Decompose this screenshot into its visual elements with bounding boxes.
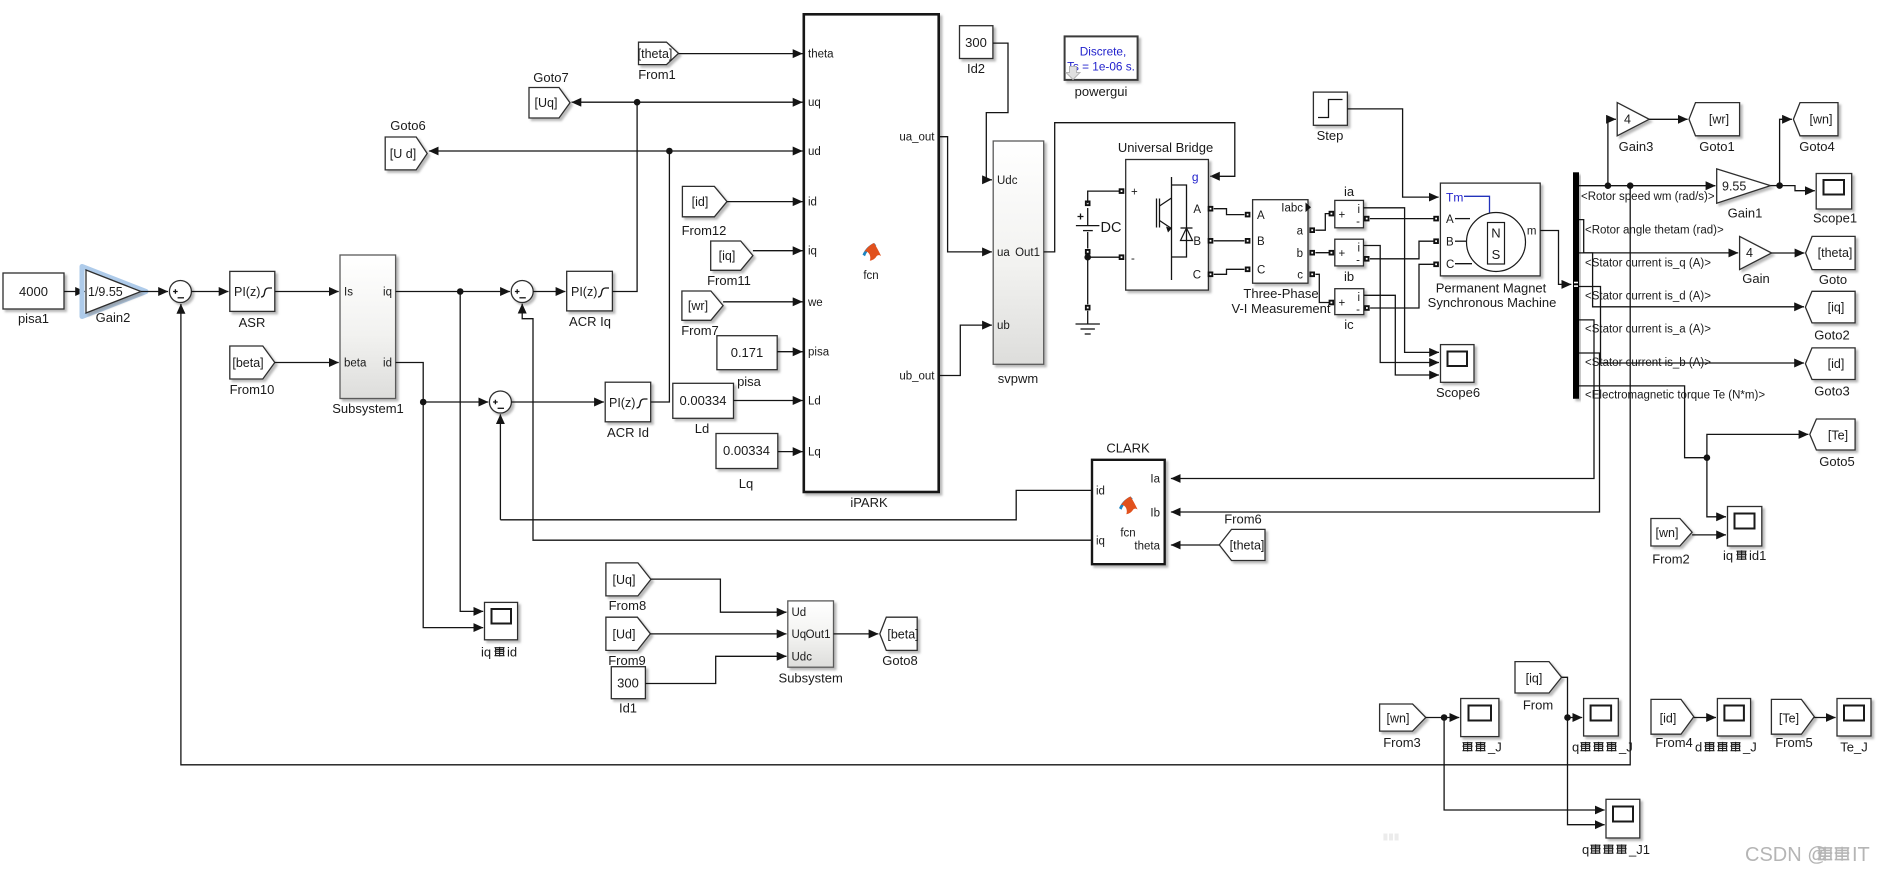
svg-text:300: 300: [617, 676, 639, 691]
goto Goto1 [wr]: [1689, 103, 1740, 154]
svg-text:Step: Step: [1317, 128, 1344, 143]
wire From9 to Subsystem Uq: [650, 633, 786, 635]
block ACR Iq PI(z): [567, 271, 613, 329]
svg-text:[wn]: [wn]: [1810, 113, 1833, 127]
wire torque down to scope iq和id1 input1: [1707, 458, 1726, 517]
svg-text:Ld: Ld: [808, 396, 821, 408]
wire From2 to scope iq和id1 input2: [1692, 534, 1726, 536]
svg-text:S: S: [1492, 247, 1501, 262]
node junction wn: [1441, 714, 1448, 721]
from From11 [iq]: [707, 241, 753, 288]
current measurement ia: [1335, 184, 1364, 228]
wire From1 to iPARK theta: [679, 53, 803, 55]
svg-text:beta: beta: [344, 358, 367, 370]
wire Subsystem1 id output to Sum3: [396, 363, 489, 403]
wire ACR Id output up to ud line: [651, 151, 670, 402]
svg-text:-: -: [1356, 255, 1360, 267]
svg-text:q: q: [1572, 740, 1579, 755]
svg-text:id: id: [1096, 486, 1105, 498]
svg-text:[theta]: [theta]: [1230, 539, 1265, 553]
svg-text:From9: From9: [608, 653, 646, 668]
sum Sum3 (id error): [489, 391, 511, 413]
wire From12 to iPARK id: [727, 201, 803, 203]
svg-text:Out1: Out1: [1015, 247, 1040, 259]
svg-text:ud: ud: [808, 146, 821, 158]
svg-text:a: a: [1297, 226, 1304, 238]
wire From7 to iPARK we: [723, 301, 802, 303]
wire bus out7 torque Te: [1579, 386, 1707, 458]
svg-text:+: +: [1339, 210, 1346, 222]
svg-text:Ld: Ld: [695, 421, 709, 436]
svg-text:C: C: [1193, 270, 1201, 282]
svg-text:ASR: ASR: [239, 315, 266, 330]
svg-text:-: -: [1131, 253, 1135, 265]
svg-text:[wr]: [wr]: [688, 299, 708, 313]
from From10 [beta]: [230, 346, 275, 397]
svg-text:<Rotor angle thetam (rad)>: <Rotor angle thetam (rad)>: [1585, 225, 1724, 237]
svg-text:From11: From11: [707, 273, 751, 288]
wire uq line to iPARK uq port: [637, 101, 802, 103]
scope q轴电流_J1: [1582, 799, 1650, 857]
node junction iq bottom: [1564, 714, 1571, 721]
svg-text:ib: ib: [1344, 269, 1354, 284]
svg-text:A: A: [1257, 210, 1265, 222]
wire bus out5 is_a down to CLARK Ia: [1171, 320, 1594, 479]
svg-text:ub: ub: [997, 320, 1010, 332]
svg-text:fcn: fcn: [1120, 528, 1135, 540]
wire ib i to Scope6 input2: [1364, 246, 1440, 363]
svg-text:[Ud]: [Ud]: [613, 628, 636, 642]
wire bus out6 is_b down to CLARK Ib: [1171, 353, 1600, 512]
svg-text:C: C: [1446, 259, 1454, 271]
svg-text:fcn: fcn: [863, 270, 878, 282]
svg-text:[Te]: [Te]: [1779, 712, 1799, 726]
svg-text:[Uq]: [Uq]: [535, 96, 558, 110]
svg-text:+: +: [1339, 298, 1346, 310]
svg-text:iq: iq: [1723, 548, 1733, 563]
wire Ld to iPARK Ld: [734, 400, 803, 402]
wire Sum1 to ASR: [191, 291, 228, 293]
svg-text:Universal Bridge: Universal Bridge: [1118, 140, 1213, 155]
svg-text:id: id: [507, 645, 517, 660]
svg-text:Goto3: Goto3: [1814, 384, 1849, 399]
svg-text:[wr]: [wr]: [1709, 113, 1729, 127]
from From2 [wn]: [1651, 519, 1692, 567]
svg-text:i: i: [1357, 243, 1360, 255]
wire ic i to Scope6 input3: [1364, 295, 1439, 375]
svg-text:Is: Is: [344, 287, 353, 299]
svg-text:From: From: [1523, 698, 1553, 713]
svg-text:B: B: [1193, 236, 1201, 248]
svg-text:ia: ia: [1344, 184, 1355, 199]
svg-text:ACR Iq: ACR Iq: [569, 314, 611, 329]
current measurement ic: [1335, 289, 1364, 332]
from From3 [wn]: [1380, 704, 1426, 750]
svg-text:Goto7: Goto7: [533, 70, 568, 85]
svg-text:[id]: [id]: [692, 195, 709, 209]
svg-text:B: B: [1257, 236, 1265, 248]
svg-text:CSDN @: CSDN @: [1745, 844, 1828, 866]
svg-text:d: d: [1695, 740, 1702, 755]
svg-text:Iabc: Iabc: [1281, 203, 1303, 215]
watermark icon: [1383, 834, 1398, 841]
current measurement ib: [1335, 239, 1364, 284]
wire Sum2 to ACR Iq: [533, 291, 565, 293]
svg-text:Out1: Out1: [806, 629, 831, 641]
scope iq和id1: [1723, 507, 1766, 564]
from From1 [theta]: [638, 42, 679, 82]
svg-text:A: A: [1446, 214, 1454, 226]
block ACR Id PI(z): [605, 382, 651, 440]
wire From8 to Subsystem Ud: [651, 579, 787, 612]
wire wn down to scope q轴电流_J1 input1: [1444, 718, 1605, 811]
svg-text:c: c: [1297, 270, 1303, 282]
wire ic - to PMSM C: [1364, 262, 1439, 311]
svg-text:iq: iq: [808, 246, 817, 258]
svg-text:b: b: [1297, 248, 1303, 260]
svg-text:From3: From3: [1383, 735, 1421, 750]
svg-text:Goto5: Goto5: [1819, 454, 1854, 469]
svg-text:Ts = 1e-06 s.: Ts = 1e-06 s.: [1067, 60, 1135, 74]
wire Step to PMSM Tm: [1347, 109, 1438, 197]
svg-text:Gain1: Gain1: [1728, 206, 1763, 221]
wire Gain3 to Goto1: [1649, 118, 1687, 120]
svg-text:C: C: [1257, 265, 1265, 277]
svg-text:Gain2: Gain2: [96, 310, 131, 325]
svg-text:[Uq]: [Uq]: [613, 573, 636, 587]
scope iq和id: [481, 602, 518, 659]
wire iq branch down to scope iq和id input1: [460, 292, 483, 612]
block ASR PI(z): [230, 271, 275, 330]
svg-text:A: A: [1193, 204, 1201, 216]
wire bus out2 rotor angle to Gain: [1579, 220, 1738, 253]
svg-text:we: we: [807, 297, 823, 309]
subsystem Subsystem1: [332, 255, 404, 416]
svg-text:B: B: [1446, 237, 1454, 249]
gain Gain2 (1/9.55, selected highlight): [82, 267, 146, 326]
wire ia - to PMSM A: [1364, 216, 1439, 222]
svg-text:Gain3: Gain3: [1619, 139, 1654, 154]
svg-text:uq: uq: [808, 97, 821, 109]
wire PMSM m to Bus Selector: [1540, 231, 1571, 285]
wire Bridge C to Measurement C: [1208, 267, 1251, 278]
wire ASR to Subsystem1 Is: [275, 291, 339, 293]
wire From5 to scope Te_J: [1814, 717, 1835, 719]
block Universal Bridge: [1118, 140, 1213, 290]
wire svpwm Out1 to Universal Bridge g: [1044, 123, 1235, 252]
svg-text:svpwm: svpwm: [998, 371, 1038, 386]
svg-text:From12: From12: [682, 223, 727, 238]
svg-text:Te_J: Te_J: [1840, 740, 1867, 755]
svg-text:i: i: [1357, 292, 1360, 304]
node junction uq: [634, 99, 641, 106]
svg-text:Lq: Lq: [739, 476, 753, 491]
svg-text:[theta]: [theta]: [1818, 246, 1853, 260]
goto Goto4 [wn]: [1793, 103, 1838, 154]
svg-text:[iq]: [iq]: [1526, 672, 1543, 686]
svg-text:4: 4: [1746, 246, 1753, 260]
svg-text:iq: iq: [1096, 536, 1105, 548]
svg-text:0.00334: 0.00334: [680, 393, 727, 408]
wire speed feedback loop (bus wm to Sum1): [181, 186, 1630, 765]
from From12 [id]: [682, 186, 727, 238]
svg-text:Udc: Udc: [792, 651, 813, 663]
goto Goto6 [U d]: [385, 118, 427, 170]
constant Id2 (300): [960, 26, 993, 76]
svg-text:powergui: powergui: [1075, 84, 1128, 99]
wire Sum3 feedback from CLARK id line: [499, 414, 501, 520]
scope Scope6: [1436, 345, 1480, 400]
wire ud line to iPARK ud port: [669, 150, 802, 152]
svg-text:PI(z): PI(z): [571, 285, 597, 299]
wire Measurement a to ia +: [1309, 211, 1334, 233]
wire Measurement b to ib +: [1309, 250, 1334, 256]
svg-text:<Stator current is_d (A)>: <Stator current is_d (A)>: [1585, 291, 1711, 303]
svg-text:[id]: [id]: [1660, 712, 1677, 726]
svg-text:_J: _J: [1487, 740, 1502, 755]
wire Gain to Goto: [1772, 252, 1805, 254]
node junction after Gain1: [1776, 182, 1783, 189]
constant Id1 (300): [611, 667, 645, 716]
svg-text:From6: From6: [1224, 512, 1262, 527]
from From5 [Te]: [1771, 699, 1814, 750]
svg-text:1/9.55: 1/9.55: [88, 285, 123, 299]
DC voltage source: [1076, 188, 1124, 304]
svg-text:+: +: [1339, 248, 1346, 260]
goto Goto2 [iq]: [1805, 291, 1855, 342]
goto Goto5 [Te]: [1810, 419, 1855, 469]
source Step: [1313, 92, 1347, 143]
scope q轴电流_J: [1572, 699, 1633, 755]
svg-text:From10: From10: [230, 382, 275, 397]
svg-text:ACR Id: ACR Id: [607, 425, 649, 440]
svg-text:ua: ua: [997, 247, 1010, 259]
svg-text:[beta]: [beta]: [887, 628, 918, 642]
svg-text:IT: IT: [1852, 844, 1870, 866]
svg-text:Ib: Ib: [1150, 508, 1160, 520]
wire Lq to iPARK Lq: [778, 451, 803, 453]
wire iPARK ub_out to svpwm ub: [939, 325, 992, 375]
svg-text:pisa1: pisa1: [18, 311, 49, 326]
svg-text:_J: _J: [1618, 740, 1633, 755]
svg-text:[iq]: [iq]: [1828, 301, 1845, 315]
svg-text:Goto6: Goto6: [390, 118, 425, 133]
goto Goto3 [id]: [1805, 348, 1855, 399]
block Three-Phase V-I Measurement: [1232, 200, 1331, 316]
svg-text:Lq: Lq: [808, 447, 821, 459]
svg-text:[beta]: [beta]: [232, 356, 263, 370]
node junction ud: [666, 148, 673, 155]
svg-text:[id]: [id]: [1828, 357, 1845, 371]
svg-text:0.171: 0.171: [731, 345, 764, 360]
svg-text:Udc: Udc: [997, 175, 1018, 187]
wire ib - to PMSM B: [1364, 238, 1439, 261]
svg-text:Goto4: Goto4: [1799, 139, 1834, 154]
wire Sum2 feedback from CLARK iq line: [522, 304, 533, 540]
svg-text:ub_out: ub_out: [899, 371, 935, 383]
wire CLARK id to Sum3 feedback line: [500, 490, 1092, 519]
svg-text:-: -: [1356, 216, 1360, 228]
svg-text:Synchronous Machine: Synchronous Machine: [1428, 295, 1557, 310]
svg-text:<Stator current is_q (A)>: <Stator current is_q (A)>: [1585, 258, 1711, 270]
svg-text:Permanent Magnet: Permanent Magnet: [1436, 281, 1547, 296]
svg-text:<Stator current is_b (A)>: <Stator current is_b (A)>: [1585, 357, 1711, 369]
subsystem iPARK (MATLAB function): [804, 14, 939, 510]
svg-text:ic: ic: [1344, 317, 1354, 332]
wire Sum3 to ACR Id: [511, 401, 604, 403]
wire Id2 to svpwm Udc: [986, 43, 1008, 180]
svg-text:Gain: Gain: [1742, 271, 1769, 286]
svg-text:iq: iq: [481, 645, 491, 660]
goto Goto8 [beta]: [880, 617, 919, 668]
node junction id: [420, 399, 427, 406]
svg-text:id: id: [808, 197, 817, 209]
node junction wm to Gain3: [1605, 182, 1612, 189]
svg-text:Tm: Tm: [1446, 191, 1463, 205]
svg-text:9.55: 9.55: [1722, 180, 1746, 194]
wire Measurement c to ic +: [1309, 272, 1334, 306]
svg-text:PI(z): PI(z): [609, 396, 635, 410]
constant pisa1 (4000): [3, 273, 64, 326]
svg-text:4: 4: [1624, 113, 1631, 127]
svg-text:<Rotor speed wm (rad/s)>: <Rotor speed wm (rad/s)>: [1581, 191, 1715, 203]
wire From6 to CLARK theta: [1171, 544, 1219, 546]
wire From3 to scope 转速_J: [1426, 717, 1460, 719]
svg-text:pisa: pisa: [808, 347, 830, 359]
constant pisa (0.171): [717, 336, 777, 389]
svg-text:[U d]: [U d]: [390, 147, 416, 161]
svg-text:[iq]: [iq]: [719, 249, 736, 263]
scope d轴电流_J: [1695, 699, 1757, 755]
wire Gain2 to Sum1: [141, 291, 168, 293]
subsystem CLARK (MATLAB function): [1092, 441, 1165, 565]
wire Gain1 to Scope1: [1780, 186, 1815, 191]
svg-text:Id2: Id2: [967, 61, 985, 76]
svg-text:V-I Measurement: V-I Measurement: [1232, 301, 1331, 316]
svg-text:[wn]: [wn]: [1387, 712, 1410, 726]
from From8 [Uq]: [606, 563, 651, 613]
sum Sum2 (iq error): [511, 281, 533, 303]
svg-text:<Electromagnetic torque Te (N*: <Electromagnetic torque Te (N*m)>: [1585, 390, 1765, 402]
wire wm up to Gain3: [1608, 119, 1616, 185]
wire id branch down to scope iq和id input2: [423, 402, 483, 628]
svg-text:Uq: Uq: [792, 629, 807, 641]
svg-text:Goto8: Goto8: [882, 653, 917, 668]
svg-text:Ud: Ud: [792, 607, 807, 619]
watermark CSDN: [1745, 844, 1870, 866]
node junction torque: [1704, 454, 1711, 461]
svg-text:300: 300: [965, 35, 987, 50]
svg-text:id1: id1: [1749, 548, 1766, 563]
svg-text:_J: _J: [1742, 740, 1757, 755]
svg-text:Goto2: Goto2: [1814, 328, 1849, 343]
subsystem Subsystem (Ud Uq Udc): [779, 601, 843, 686]
from From [iq]: [1515, 662, 1562, 713]
wire iPARK ua_out to svpwm ua: [939, 137, 992, 252]
svg-text:q: q: [1582, 842, 1589, 857]
svg-text:From8: From8: [609, 598, 647, 613]
svg-text:theta: theta: [808, 49, 834, 61]
svg-text:From4: From4: [1655, 735, 1693, 750]
svg-text:_J1: _J1: [1628, 842, 1650, 857]
svg-text:Subsystem1: Subsystem1: [332, 401, 404, 416]
node junction iq: [457, 288, 464, 295]
svg-text:[wn]: [wn]: [1656, 526, 1679, 540]
scope 转速_J: [1461, 699, 1502, 755]
wire ACR Iq output up to uq line: [612, 102, 637, 291]
svg-text:Three-Phase: Three-Phase: [1243, 286, 1318, 301]
wire CLARK iq to Sum2 feedback line: [533, 539, 1092, 542]
svg-text:Goto: Goto: [1819, 272, 1847, 287]
wire ud line to Goto6: [429, 150, 670, 152]
from From6 [theta] (flipped): [1219, 512, 1265, 561]
from From4 [id]: [1651, 699, 1694, 750]
wire pisa to iPARK pisa: [777, 351, 802, 353]
svg-text:id: id: [383, 358, 392, 370]
svg-text:CLARK: CLARK: [1106, 441, 1150, 456]
from From9 [Ud]: [606, 617, 651, 668]
svg-text:+: +: [1131, 187, 1138, 199]
wire From10 to Subsystem1 beta: [275, 362, 339, 364]
scope Scope1: [1813, 174, 1857, 226]
svg-text:Goto1: Goto1: [1699, 139, 1734, 154]
wire Subsystem1 iq to Sum2: [396, 291, 510, 293]
wire Gain1 up to Goto4: [1780, 119, 1792, 185]
ground symbol: [1076, 305, 1100, 334]
svg-text:4000: 4000: [19, 284, 48, 299]
svg-text:PI(z): PI(z): [234, 285, 260, 299]
sum Sum1 (speed error): [169, 281, 191, 303]
wire Bridge B to Measurement B: [1208, 238, 1251, 244]
svg-text:iPARK: iPARK: [850, 495, 888, 510]
wire bus out1 rotor speed wm: [1579, 185, 1715, 187]
gain Gain3 (4): [1617, 103, 1653, 154]
svg-text:0.00334: 0.00334: [723, 443, 770, 458]
wire From11 to iPARK iq: [753, 250, 803, 252]
wire From iq to scope q轴电流_J: [1562, 677, 1583, 717]
svg-text:From2: From2: [1652, 552, 1690, 567]
svg-text:Subsystem: Subsystem: [779, 671, 843, 686]
svg-text:m: m: [1527, 226, 1537, 238]
svg-text:Scope1: Scope1: [1813, 211, 1857, 226]
wire bus out3 is_q to Goto2: [1579, 253, 1804, 307]
svg-text:-: -: [1356, 304, 1360, 316]
wire bus out4 is_d to Goto3: [1579, 287, 1804, 364]
wire ia i to Scope6 input1: [1364, 208, 1440, 353]
svg-text:DC: DC: [1101, 220, 1122, 236]
wire torque to Goto5: [1707, 434, 1809, 457]
from From7 [wr]: [681, 291, 723, 338]
constant Ld (0.00334): [673, 383, 734, 436]
svg-text:Ia: Ia: [1150, 474, 1160, 486]
wire iq down to scope q轴电流_J1 input2: [1568, 718, 1605, 825]
svg-text:[theta]: [theta]: [638, 47, 673, 61]
svg-text:From7: From7: [681, 323, 719, 338]
svg-text:theta: theta: [1134, 541, 1160, 553]
goto Goto7 [Uq]: [529, 70, 570, 118]
wire Id1 to Subsystem Udc: [645, 656, 786, 683]
scope Te_J: [1837, 699, 1871, 755]
wire Subsystem Out1 to Goto8: [834, 633, 879, 635]
bus selector: [1573, 172, 1579, 398]
svg-text:Id1: Id1: [619, 701, 637, 716]
powergui block: [1065, 36, 1138, 99]
goto Goto [theta]: [1806, 236, 1856, 287]
node junction wm feedback: [1627, 182, 1634, 189]
svg-text:ua_out: ua_out: [899, 132, 935, 144]
wire pisa1 to Gain2: [64, 291, 85, 293]
svg-text:g: g: [1192, 170, 1199, 184]
